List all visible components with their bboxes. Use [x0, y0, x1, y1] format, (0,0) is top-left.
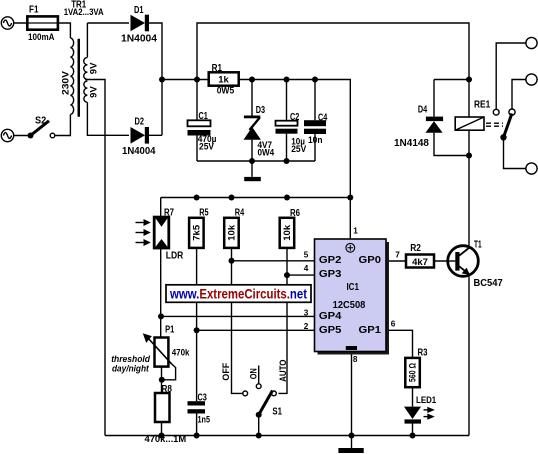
- svg-text:7: 7: [395, 250, 400, 259]
- svg-text:1N4004: 1N4004: [121, 34, 158, 45]
- svg-text:P1: P1: [165, 324, 175, 335]
- svg-text:S1: S1: [272, 407, 282, 418]
- svg-text:4k7: 4k7: [412, 257, 428, 268]
- svg-text:470k: 470k: [172, 348, 190, 359]
- svg-text:R2: R2: [410, 243, 421, 254]
- svg-text:R8: R8: [162, 384, 173, 395]
- svg-text:T1: T1: [474, 239, 482, 250]
- svg-text:day/night: day/night: [112, 363, 150, 373]
- svg-text:www.ExtremeCircuits.net: www.ExtremeCircuits.net: [169, 286, 307, 301]
- svg-text:R1: R1: [212, 63, 223, 74]
- svg-text:1n5: 1n5: [198, 414, 211, 425]
- svg-text:0W4: 0W4: [258, 148, 275, 159]
- svg-text:LED1: LED1: [416, 395, 437, 406]
- svg-text:1: 1: [353, 226, 358, 235]
- svg-text:C3: C3: [198, 392, 208, 403]
- svg-text:4: 4: [304, 264, 309, 273]
- svg-text:9V: 9V: [89, 62, 100, 74]
- svg-text:R6: R6: [290, 208, 300, 219]
- svg-text:R7: R7: [164, 207, 174, 218]
- svg-text:C4: C4: [318, 113, 328, 124]
- svg-text:2: 2: [304, 322, 309, 331]
- svg-text:F1: F1: [29, 4, 39, 15]
- svg-text:GP4: GP4: [319, 311, 342, 322]
- svg-text:D2: D2: [135, 116, 145, 127]
- svg-text:R4: R4: [235, 208, 245, 219]
- svg-text:230V: 230V: [61, 70, 72, 95]
- svg-text:OFF: OFF: [221, 363, 232, 381]
- svg-text:560 Ω: 560 Ω: [408, 363, 419, 382]
- svg-text:1N4004: 1N4004: [122, 146, 156, 157]
- svg-text:100mA: 100mA: [28, 32, 55, 43]
- svg-text:0W5: 0W5: [217, 85, 235, 96]
- svg-text:GP0: GP0: [359, 255, 382, 266]
- svg-text:25V: 25V: [199, 141, 215, 152]
- svg-text:D3: D3: [256, 105, 266, 116]
- svg-text:BC547: BC547: [474, 278, 504, 289]
- svg-text:3: 3: [304, 308, 309, 317]
- svg-text:GP1: GP1: [359, 325, 382, 336]
- svg-text:GP3: GP3: [319, 269, 342, 280]
- svg-text:10k: 10k: [282, 224, 293, 241]
- svg-text:RE1: RE1: [474, 99, 491, 110]
- svg-text:S2: S2: [35, 116, 47, 127]
- svg-text:GP2: GP2: [319, 255, 342, 266]
- svg-text:D1: D1: [134, 5, 144, 16]
- svg-text:LDR: LDR: [166, 250, 184, 261]
- svg-text:470k...1M: 470k...1M: [145, 434, 187, 445]
- svg-text:1VA2...3VA: 1VA2...3VA: [64, 7, 104, 18]
- svg-text:GP5: GP5: [319, 325, 342, 336]
- svg-text:C2: C2: [290, 112, 300, 123]
- svg-text:1N4148: 1N4148: [394, 138, 430, 149]
- svg-text:ON: ON: [248, 368, 259, 379]
- svg-text:25V: 25V: [291, 144, 307, 155]
- svg-text:8: 8: [353, 355, 358, 364]
- svg-text:7k5: 7k5: [191, 224, 202, 241]
- svg-text:AUTO: AUTO: [278, 360, 289, 382]
- svg-text:IC1: IC1: [346, 282, 359, 293]
- svg-text:R5: R5: [199, 208, 209, 219]
- svg-text:10n: 10n: [308, 135, 323, 146]
- svg-text:1k: 1k: [218, 75, 229, 86]
- svg-text:9V: 9V: [89, 86, 100, 98]
- svg-text:12C508: 12C508: [333, 300, 366, 311]
- svg-text:D4: D4: [418, 104, 428, 115]
- svg-text:6: 6: [391, 319, 396, 328]
- svg-text:5: 5: [304, 251, 309, 260]
- svg-text:C1: C1: [199, 111, 209, 122]
- svg-text:10k: 10k: [227, 224, 238, 241]
- svg-text:R3: R3: [418, 348, 428, 359]
